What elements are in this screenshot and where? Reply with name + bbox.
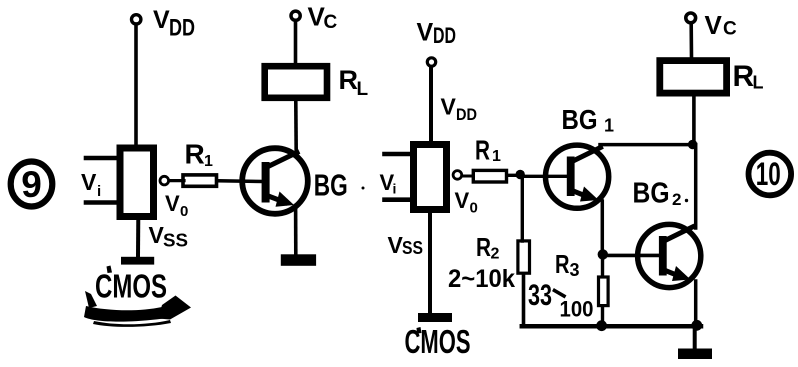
label Vi (circuit 9) [81,169,101,200]
svg-text:L: L [753,73,764,93]
label BG1 [562,104,615,136]
wire input bottom (circuit 10) [385,197,411,202]
svg-text:CMOS: CMOS [405,323,471,360]
svg-text:0: 0 [470,200,478,217]
wire VSS to ground (circuit 9) [136,217,140,257]
svg-text:0: 0 [180,203,188,220]
resistor R1 (circuit 9) [183,175,217,186]
svg-text:V: V [441,94,457,120]
resistor R2 [518,241,530,273]
svg-text:BG: BG [314,168,348,203]
wire RL to collector junction [692,97,696,144]
svg-text:SS: SS [163,231,188,251]
wire V0 to R1 (circuit 10) [462,175,473,178]
transistor BG (circuit 9) [242,148,308,214]
svg-text:BG: BG [633,178,670,210]
VC terminal (circuit 9) [291,11,300,20]
svg-text:R: R [475,135,490,166]
junction node (BG2 emitter / bottom rail) [691,320,702,331]
wire input top (circuit 10) [385,152,411,157]
speck after BG2 label [685,199,688,202]
svg-text:3: 3 [570,260,580,280]
wire VDD to CMOS block (circuit 10) [429,67,433,141]
svg-text:DD: DD [456,105,477,124]
svg-text:DD: DD [169,15,195,42]
wire BG2 emitter down [694,281,698,326]
junction node (RL/BG1/BG2 collector) [688,140,697,149]
svg-text:i: i [393,181,397,197]
wire R1 to junction [507,174,516,177]
svg-text:1: 1 [604,116,614,136]
transistor BG2 [638,224,701,287]
wire junction to BG2 base [603,254,659,258]
svg-text:R: R [555,249,570,279]
wire R2 to bottom rail [522,275,526,327]
wire R3 to bottom rail [601,307,604,326]
svg-text:R: R [339,65,359,95]
VDD terminal (circuit 10) [427,58,435,66]
wire RL to BG collector [294,102,298,154]
ground (circuit 10) [678,349,712,360]
figure number 9 [11,162,53,207]
resistor R1 (circuit 10) [473,170,506,182]
ground (BG emitter, circuit 9) [281,254,316,265]
svg-text:V: V [417,19,434,47]
label VC (circuit 9) [308,2,338,34]
label R3 [555,249,580,280]
label RL (circuit 9) [339,65,369,100]
wire R1 to BG base [218,179,262,183]
svg-text:V: V [165,191,180,216]
VC terminal (circuit 10) [686,13,696,23]
label Vi (circuit 10) [380,170,397,197]
label VSS (circuit 10) [388,232,424,258]
node V0 output bubble (circuit 9) [160,176,169,185]
svg-text:2~10k: 2~10k [448,265,515,293]
label VDD (circuit 9) [153,6,195,42]
label CMOS (circuit 9) [95,266,167,305]
ground (CMOS, circuit 9) [121,257,154,265]
wire VC to RL (circuit 10) [689,24,693,58]
bottom rail wire [522,324,701,329]
svg-text:V: V [81,169,97,195]
label VC (circuit 10) [705,10,738,40]
label 33~ [528,279,552,312]
collector rail wire (BG1 to RL junction) [600,143,695,147]
wire BG2 collector to junction [694,145,698,229]
wire BG1 emitter down [601,201,605,250]
label RL (circuit 10) [733,60,764,93]
svg-text:BG: BG [562,104,598,135]
ground (CMOS, circuit 10) [418,313,452,322]
label CMOS (circuit 10) [405,323,471,360]
wire BG emitter to ground [294,206,298,255]
svg-text:CMOS: CMOS [95,267,167,304]
resistor R3 [599,277,609,306]
wire VSS to ground (circuit 10) [428,213,432,315]
svg-text:9: 9 [21,164,42,205]
label V0 (circuit 9) [165,191,188,220]
svg-text:C: C [324,12,338,33]
svg-text:100: 100 [560,297,594,322]
wire VC to RL (circuit 9) [294,22,298,64]
wire junction to R3 [601,255,604,276]
load resistor RL (circuit 10) [660,61,727,94]
wire junction to R2 [521,175,524,241]
load resistor RL (circuit 9) [265,66,327,98]
svg-text:SS: SS [402,238,423,258]
label VDD inner (circuit 10) [441,94,478,125]
node V0 output bubble (circuit 10) [453,171,462,180]
svg-text:33: 33 [528,279,552,312]
CMOS inverter block (circuit 9) [120,148,154,217]
tilde dash of 33~ [555,291,565,297]
svg-text:1: 1 [492,148,501,165]
svg-text:10: 10 [756,156,781,192]
figure number 10 [749,153,792,196]
junction node (BG1 emitter / BG2 base / R3) [598,249,608,259]
label VDD top (circuit 10) [417,19,457,49]
svg-text:1: 1 [204,153,213,170]
wire junction to BG1 base [520,175,566,178]
label BG2 [633,178,682,210]
junction node (R3 / bottom rail) [596,320,607,331]
svg-text:V: V [705,10,723,40]
wire input top (circuit 9) [86,156,117,161]
svg-text:C: C [723,19,737,40]
wire VDD to CMOS block [134,24,138,147]
speck after BG label [362,187,365,190]
svg-text:R: R [733,60,755,93]
wire V0 to R1 (circuit 9) [169,179,184,182]
label R2 [476,232,500,263]
label VSS (circuit 9) [149,222,189,251]
svg-text:L: L [357,79,369,100]
svg-text:2: 2 [672,190,681,209]
label V0 (circuit 10) [455,188,478,217]
svg-text:DD: DD [433,23,456,48]
label R1 (circuit 9) [185,139,214,171]
wire to ground (circuit 10) [693,326,697,350]
svg-text:V: V [153,6,170,34]
svg-text:V: V [455,188,470,213]
svg-text:i: i [97,183,101,200]
transistor BG1 [546,145,609,208]
wire input bottom (circuit 9) [86,200,117,205]
junction node (R1/R2/BG1 base) [516,170,525,179]
swoosh arrow under CMOS [84,291,191,327]
label R1 (circuit 10) [475,135,501,166]
svg-text:R: R [185,139,205,170]
svg-text:R: R [476,232,491,262]
CMOS inverter block (circuit 10) [414,145,447,210]
svg-text:2: 2 [491,246,500,263]
VDD terminal (circuit 9) [132,15,141,24]
